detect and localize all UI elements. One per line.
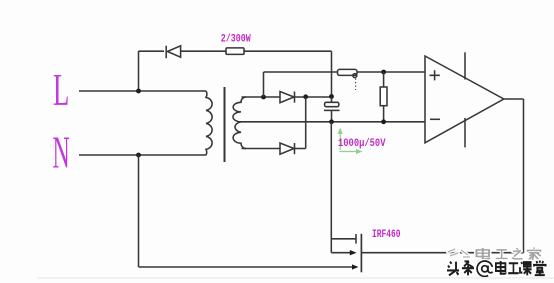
wire trimmer to op-amp plus [357, 71, 425, 73]
wire bottom rail to mosfet source [139, 266, 353, 268]
diode D1 (pointing left) [166, 46, 226, 59]
transformer T1 primary winding [206, 91, 212, 155]
watermark smudge left fragments [448, 249, 470, 257]
transformer T1 secondary winding lower [233, 122, 246, 149]
wire junction down to D3 [305, 97, 307, 149]
wire corner down to node B [331, 51, 333, 96]
node secondary top / tap to trimmer [261, 95, 266, 100]
resistor R1 body [226, 48, 244, 55]
wire N down [138, 155, 140, 267]
diode D3 (pointing right) [280, 143, 295, 154]
svg-text:IRF460: IRF460 [372, 229, 401, 241]
resistor R3 vertical [380, 72, 387, 122]
node B top of capacitor [329, 94, 334, 99]
trimmer R2 body [338, 69, 358, 90]
capacitor C1 1000u/50V [324, 97, 340, 122]
green origin marker arrows [338, 128, 363, 155]
watermark black "toutiao @ dian gong ke tang" [447, 261, 546, 276]
wire op-amp output [504, 98, 524, 100]
wire center-tap rail to op-amp minus [241, 121, 425, 123]
diode D2 (pointing right) [280, 92, 295, 103]
mosfet Q1 IRF460 [331, 234, 361, 272]
node rail at capacitor [329, 119, 334, 124]
svg-text:2/300W: 2/300W [221, 34, 251, 46]
wire D3 cathode to vertical [295, 148, 306, 150]
wire output down to drain row [523, 99, 525, 253]
wire L row [79, 90, 206, 92]
node D2-D3 cathode junction [303, 94, 308, 99]
node label L [53, 65, 69, 116]
node L junction [136, 89, 141, 94]
faint bottom edge band [38, 277, 554, 279]
transformer core [224, 87, 226, 162]
wire R1 to corner [244, 50, 332, 52]
svg-text:1000µ/50V: 1000µ/50V [338, 138, 386, 150]
node label N [53, 126, 70, 177]
op-amp U1 [425, 52, 504, 147]
svg-text:N: N [53, 126, 70, 177]
node R3 top [381, 70, 386, 75]
node R3 bottom on rail [381, 119, 386, 124]
wire secondary top lead [242, 96, 281, 98]
transformer T1 secondary winding upper [233, 97, 246, 122]
wire trimmer row [264, 71, 338, 73]
watermark at-sign [477, 261, 493, 276]
watermark gray "dian gong zhi jia" [477, 248, 541, 261]
wire D2 cathode to node B [295, 96, 332, 98]
wire gate drop from rail [330, 122, 332, 253]
wire up from node to trimmer row [263, 72, 265, 97]
wire L-junction up to top line [138, 51, 140, 91]
svg-text:L: L [53, 65, 69, 116]
wire drain row [361, 252, 523, 254]
wire top line left segment [139, 50, 165, 52]
wire N row [79, 154, 206, 156]
wire secondary bottom lead [242, 148, 281, 150]
node N junction [136, 153, 141, 158]
